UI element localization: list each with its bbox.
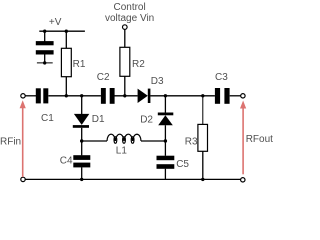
svg-text:C1: C1 — [41, 113, 54, 124]
svg-text:+V: +V — [49, 17, 62, 28]
svg-text:R1: R1 — [73, 59, 86, 70]
svg-text:RFin: RFin — [0, 137, 21, 148]
svg-text:Control: Control — [113, 2, 145, 13]
svg-text:D2: D2 — [140, 114, 153, 125]
svg-text:RFout: RFout — [246, 134, 273, 145]
svg-text:C5: C5 — [176, 159, 189, 170]
svg-text:C3: C3 — [215, 72, 228, 83]
svg-text:L1: L1 — [116, 145, 128, 156]
svg-text:voltage Vin: voltage Vin — [105, 13, 154, 24]
svg-text:C4: C4 — [60, 156, 73, 167]
svg-text:D3: D3 — [151, 76, 164, 87]
svg-text:R2: R2 — [132, 59, 145, 70]
svg-text:R3: R3 — [185, 136, 198, 147]
svg-text:D1: D1 — [92, 114, 105, 125]
svg-text:C2: C2 — [97, 72, 110, 83]
